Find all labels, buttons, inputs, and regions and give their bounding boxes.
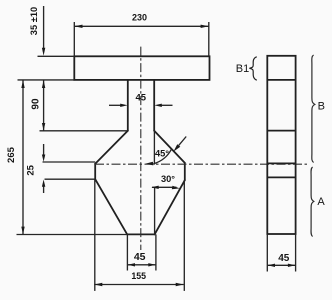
stem right edge xyxy=(153,80,155,131)
left 30deg taper xyxy=(95,179,127,234)
extension line plate top left xyxy=(38,55,75,57)
brace for A xyxy=(311,167,314,237)
top plate outline xyxy=(74,56,209,80)
right flank vertical xyxy=(184,163,186,180)
extension line bottom 45 left xyxy=(126,234,128,270)
30deg dimension line xyxy=(152,186,177,188)
svg-text:45: 45 xyxy=(136,93,147,104)
svg-text:B: B xyxy=(318,100,325,112)
45deg leader line xyxy=(179,137,187,146)
extension line body top (90 dim) xyxy=(40,130,128,132)
svg-text:230: 230 xyxy=(132,12,147,22)
svg-text:45: 45 xyxy=(278,253,290,264)
arrow bottom 45 left xyxy=(128,263,135,266)
arrowhead 45deg leader xyxy=(173,144,180,151)
dimension line stem 45 left tail xyxy=(109,104,122,106)
45deg angle arc xyxy=(154,149,172,164)
extension line bottom 45 right xyxy=(155,234,157,270)
arrow 155 right xyxy=(176,283,184,286)
right 45deg chamfer xyxy=(154,131,185,163)
arrowhead 45deg arc end xyxy=(145,162,153,166)
arrow 30deg right (at taper) xyxy=(172,186,180,190)
dimension line 265 xyxy=(22,80,24,235)
arrow 230 left xyxy=(74,25,82,28)
45deg angle reference vertical (stem edge extended) xyxy=(153,131,155,165)
arrow 230 right xyxy=(201,25,209,28)
arrow stem 45 left (points right) xyxy=(120,104,127,107)
right 30deg taper xyxy=(155,180,185,234)
left flank vertical xyxy=(94,164,96,179)
horizontal centerline xyxy=(95,163,308,165)
svg-text:25: 25 xyxy=(26,164,37,175)
side arrow 45 left xyxy=(268,264,275,267)
brace for B1 xyxy=(249,57,256,80)
left 45deg chamfer xyxy=(95,131,128,164)
dimension line stem 45 right tail xyxy=(161,104,173,106)
side view division line 1 xyxy=(267,79,295,81)
svg-text:B1: B1 xyxy=(236,63,249,75)
side view extension 45 left xyxy=(266,234,268,272)
svg-text:45°: 45° xyxy=(155,149,169,159)
brace for B xyxy=(312,55,315,163)
side view dimension line 45 xyxy=(267,264,295,266)
dimension line 25 lower tail xyxy=(43,185,45,193)
arrow 90 down at body top xyxy=(42,123,45,131)
dimension line 155 xyxy=(94,284,184,286)
side arrow 45 right xyxy=(288,264,295,267)
svg-text:90: 90 xyxy=(31,98,42,110)
dimension line 90 xyxy=(43,80,45,131)
side view extension 45 right xyxy=(295,234,297,272)
side view division line 2 xyxy=(267,130,295,132)
arrow bottom 45 right xyxy=(148,263,155,266)
svg-text:35 ±10: 35 ±10 xyxy=(29,7,39,35)
svg-text:A: A xyxy=(317,196,325,208)
arrow 35/90 up at plate bottom xyxy=(42,80,45,88)
extension line 155 right xyxy=(183,180,185,291)
side view division line 3 (center) xyxy=(267,162,295,164)
extension line 155 left xyxy=(94,179,96,291)
extension line 230 left xyxy=(73,22,75,56)
vertical centerline xyxy=(140,47,142,250)
arrow 35 top (down) xyxy=(42,48,45,56)
side view division line 4 xyxy=(267,176,295,178)
arrow 265 down at bottom edge xyxy=(21,227,24,235)
dimension line bottom 45 xyxy=(127,264,155,266)
arrow 25 up xyxy=(42,180,45,187)
30deg vertical reference line xyxy=(154,187,156,234)
arrow 25 down xyxy=(42,155,45,162)
svg-text:30°: 30° xyxy=(161,174,175,184)
bottom flat edge xyxy=(127,233,154,235)
extension line plate bottom left xyxy=(18,79,75,81)
dimension line 230 xyxy=(74,25,209,27)
dimension line 25 upper tail xyxy=(43,144,45,156)
dimension line 35pm10 xyxy=(43,6,45,52)
extension line bottom edge left (265 dim) xyxy=(17,234,128,236)
arrow 30deg left xyxy=(151,186,158,189)
arrow 155 left xyxy=(94,283,102,286)
arrow stem 45 right (points left) xyxy=(154,104,161,107)
arrow 265 up at plate bottom xyxy=(21,80,24,88)
extension line 25 bottom xyxy=(45,178,96,180)
stem left edge xyxy=(127,80,129,131)
side view outline xyxy=(267,56,295,234)
svg-text:155: 155 xyxy=(131,271,146,281)
svg-text:45: 45 xyxy=(134,251,146,263)
svg-text:265: 265 xyxy=(6,146,17,163)
extension line 230 right xyxy=(208,22,210,56)
extension line 25 top xyxy=(43,161,96,163)
